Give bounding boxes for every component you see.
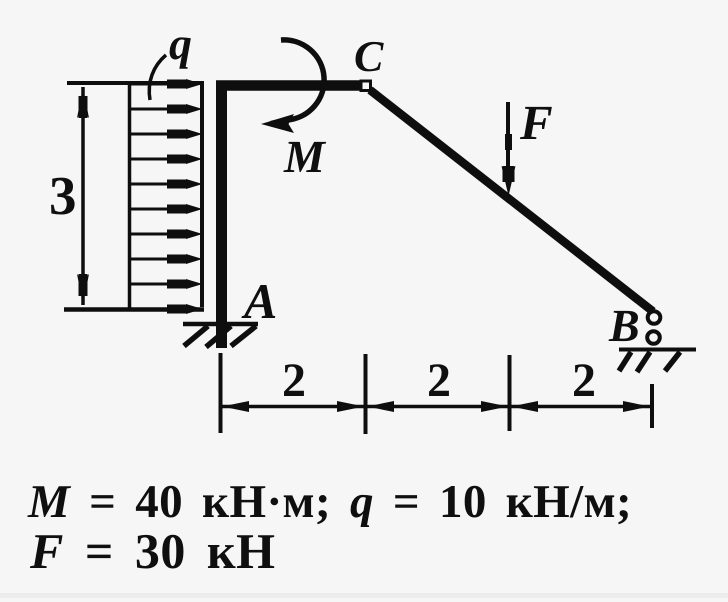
leader line for q (149, 55, 166, 100)
support B hatch strokes (619, 352, 680, 372)
support A hatch strokes (184, 326, 256, 347)
svg-text:3: 3 (49, 165, 77, 226)
dimension label 2 (first) (282, 354, 306, 407)
svg-text:2: 2 (427, 354, 451, 407)
formula text line 1 (27, 476, 632, 528)
formula text line 2 (29, 523, 276, 579)
dimension 3: bottom arrowhead (77, 274, 89, 305)
label B (608, 300, 640, 351)
svg-text:2: 2 (282, 354, 306, 407)
label 3 (49, 165, 77, 226)
svg-text:q: q (169, 18, 192, 69)
bottom dimension extension tick at C (364, 354, 368, 434)
force F arrowhead (502, 134, 516, 196)
label C (354, 32, 384, 81)
dimension arrows segment 3 (511, 401, 650, 412)
support A hatching bar (183, 322, 258, 327)
bottom dimension line (220, 405, 652, 409)
distributed load q: left edge line (128, 83, 132, 309)
moment M arc (271, 40, 324, 124)
distributed load q: right edge line (200, 82, 204, 307)
bottom dimension extension tick at B (650, 384, 654, 428)
svg-text:2: 2 (572, 354, 596, 407)
bottom dimension extension tick at A (219, 353, 223, 433)
support B roller circles (647, 311, 660, 344)
dimension 3: vertical dimension line (81, 87, 85, 305)
svg-text:M = 40 кН·м; q = 10 кН/м;: M = 40 кН·м; q = 10 кН/м; (27, 476, 632, 528)
faint bottom scan line (0, 593, 728, 598)
moment M arrowhead (261, 114, 294, 133)
label A (241, 273, 277, 329)
svg-text:B: B (608, 300, 640, 351)
svg-text:M: M (283, 131, 327, 182)
hinge square at C (361, 81, 371, 91)
dimension label 2 (third) (572, 354, 596, 407)
support B ground line (619, 348, 696, 352)
label F (519, 95, 553, 150)
bottom dimension extension tick at F (508, 355, 512, 431)
svg-text:C: C (354, 32, 384, 81)
dimension arrows segment 2 (367, 401, 508, 412)
dimension arrows segment 1 (222, 401, 364, 412)
svg-text:F = 30 кН: F = 30 кН (29, 523, 276, 579)
force F arrow line (506, 102, 510, 168)
dimension 3: top arrowhead (77, 87, 89, 118)
label M (283, 131, 327, 182)
dimension 3: top extension line (67, 81, 204, 85)
member: horizontal beam corner to C (216, 80, 362, 91)
dimension 3: bottom extension line (64, 307, 204, 312)
label q (169, 18, 192, 69)
svg-text:F: F (519, 95, 553, 150)
distributed load q: arrows (129, 79, 203, 314)
svg-text:A: A (241, 273, 277, 329)
member: vertical column A to corner (216, 82, 227, 348)
dimension label 2 (second) (427, 354, 451, 407)
member: diagonal bar C to B (370, 90, 653, 312)
